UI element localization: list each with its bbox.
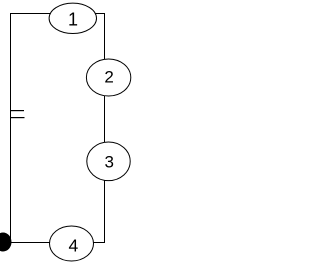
callout ellipse 1 — [49, 3, 96, 33]
callout ellipse 3 — [87, 142, 130, 181]
box bottom edge — [10, 242, 105, 243]
equals mark lower line — [10, 117, 25, 118]
black blob at bottom-left corner — [0, 233, 12, 252]
box top edge — [10, 13, 105, 14]
room box fill — [10, 13, 105, 243]
callout ellipse 2 — [86, 59, 130, 96]
box right edge — [104, 13, 105, 243]
svg-text:2: 2 — [104, 68, 113, 87]
box left edge — [10, 13, 11, 243]
svg-text:4: 4 — [69, 236, 79, 256]
svg-text:3: 3 — [104, 153, 113, 172]
callout ellipse 4 — [50, 226, 94, 261]
svg-text:1: 1 — [68, 9, 78, 29]
equals mark upper line — [10, 110, 24, 111]
